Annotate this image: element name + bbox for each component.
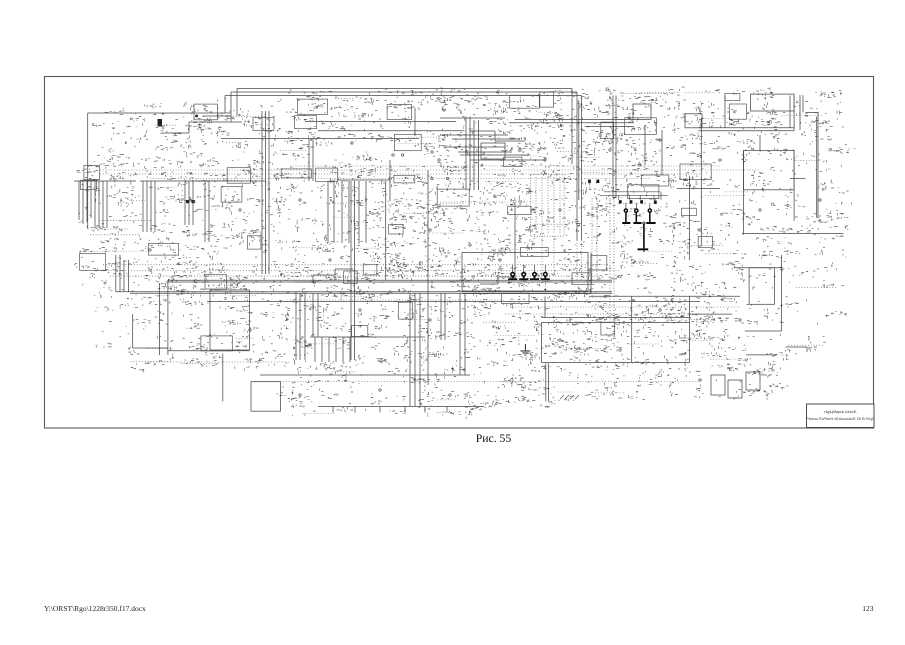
- wire: center h2: [318, 130, 465, 132]
- component block: [633, 104, 651, 119]
- dotted vertical riser: [613, 198, 615, 322]
- dotted link 11: [99, 220, 151, 222]
- wire: v645: [644, 125, 646, 165]
- wire: v351 pair: [351, 181, 355, 360]
- wire: bus step h2: [189, 121, 242, 123]
- dotted link 2: [100, 169, 760, 171]
- svg-text:РЬесы ЕсРеЬН сЕсЬсьсЬсЕ 20 В %: РЬесы ЕсРеЬН сЕсЬсьсЬсЕ 20 В %ЦО: [806, 417, 874, 421]
- contact squares: [588, 180, 657, 204]
- wire: bus step h1: [203, 115, 231, 117]
- wire: center h3: [221, 138, 419, 140]
- wire: v222: [222, 354, 224, 402]
- small components and labels (illegible at scan resolution): [74, 87, 849, 414]
- wire: left v cluster: [116, 255, 129, 292]
- wire: right v cluster: [800, 95, 803, 130]
- ground: [521, 344, 531, 355]
- dashed enclosure with bus wires: [530, 174, 564, 236]
- terminal box: [711, 375, 725, 395]
- wire: bus drop v1: [571, 89, 573, 165]
- dotted link 15: [88, 228, 130, 230]
- transformer/electrode symbols (bold): [624, 203, 651, 222]
- component block: [210, 290, 250, 350]
- wire: corner to v818: [805, 112, 818, 218]
- wire: v781: [781, 255, 783, 331]
- wire: right top v pair: [790, 96, 794, 131]
- wire: top bus 2: [231, 91, 577, 93]
- wire: bus left v1: [236, 89, 238, 117]
- wire: h690: [690, 313, 732, 315]
- wire: comb drops a: [79, 181, 107, 228]
- wire: v313 group: [313, 293, 318, 337]
- dotted link 9: [505, 313, 700, 315]
- wire: h744: [745, 330, 782, 332]
- dotted line through contacts: [498, 273, 558, 275]
- dotted link 12: [290, 299, 505, 301]
- wire: corner right: [786, 347, 807, 352]
- wire: v441 pair: [441, 293, 445, 340]
- dotted vertical risers under contacts: [577, 198, 610, 322]
- wire: v410 group: [410, 293, 420, 406]
- title stamp box: [807, 404, 875, 428]
- switch group enclosure: [462, 253, 591, 294]
- component block: [481, 143, 505, 159]
- component block (open bottom): [744, 150, 795, 189]
- wire: top-left frame horizontal: [88, 112, 231, 114]
- wire: h300: [260, 374, 470, 376]
- dotted link 7: [110, 275, 600, 277]
- wire: v296 group: [296, 293, 305, 360]
- wire: v794: [793, 150, 795, 220]
- component block: [251, 382, 281, 412]
- dotted link 14: [255, 381, 700, 383]
- junction node: [195, 115, 198, 118]
- wire: right top h pair: [698, 128, 794, 131]
- wire: v390: [389, 160, 391, 201]
- wire: bottom ticks: [333, 406, 447, 412]
- wire: relay risers: [545, 297, 689, 323]
- wire: v415: [414, 108, 416, 136]
- dotted link 3: [100, 173, 700, 175]
- wire: h302 long: [207, 301, 700, 303]
- wire: v460 pair: [460, 293, 465, 375]
- dotted column extensions: [440, 202, 554, 276]
- wire: top bus 1: [237, 88, 572, 90]
- wire: h746: [746, 354, 777, 356]
- wire: comb drops d: [205, 181, 209, 242]
- wire: mid bus 2: [116, 292, 612, 294]
- wire: center h1: [305, 121, 456, 123]
- dotted link 5: [103, 264, 610, 266]
- wire: bus step h3: [162, 132, 189, 134]
- wire: bus step v: [188, 122, 190, 133]
- component: small IC block: [158, 119, 163, 127]
- wire: step a: [295, 269, 353, 282]
- wire: h790: [790, 178, 805, 180]
- wire: v545 pair: [546, 363, 549, 401]
- wire: v689: [688, 176, 690, 260]
- bold switch contacts row: [508, 265, 550, 280]
- wire: top bus 3: [225, 95, 582, 97]
- wire: bus left v3: [224, 96, 226, 114]
- wire: bus drop v2: [577, 92, 579, 240]
- wire ladder above electrodes: [600, 192, 668, 200]
- wire: bus drop v3: [581, 96, 583, 241]
- dotted link 1: [290, 165, 720, 167]
- wire: step b: [480, 277, 516, 284]
- wire: v515: [514, 203, 516, 280]
- wire: comb drops c: [185, 181, 193, 225]
- wire: mid stack: [440, 135, 520, 152]
- wire: comb drops b: [143, 181, 155, 232]
- wire: v168: [167, 280, 169, 355]
- component block: [749, 268, 774, 305]
- wire: v760: [759, 135, 761, 150]
- terminal box: [746, 372, 760, 390]
- junction circle on electrode bar: [643, 222, 645, 224]
- terminal box: [728, 380, 742, 398]
- wire: L-shape: [133, 314, 168, 348]
- svg-text:123: 123: [862, 604, 874, 613]
- small component boxes: [80, 92, 747, 351]
- wire: mid bus right: [589, 295, 740, 297]
- wire: bus left v2: [230, 92, 232, 122]
- svg-text:Y:\ORST\Rgo\1228r350.f17.docx: Y:\ORST\Rgo\1228r350.f17.docx: [44, 604, 146, 613]
- wire: comb drops e: [328, 181, 366, 243]
- wire: v662: [661, 130, 663, 175]
- relay block divider: [631, 323, 633, 363]
- wire: h338: [338, 179, 390, 181]
- wire: mid elbows: [460, 131, 545, 160]
- wire: right h733: [734, 267, 783, 269]
- wire: v466 bundle: [466, 117, 479, 190]
- wire: bottom long h: [318, 405, 484, 407]
- component block: [685, 114, 702, 128]
- wire: center v drops: [309, 139, 313, 182]
- wire: v701: [700, 118, 702, 246]
- wire: h676: [677, 187, 720, 189]
- small contact circles: [149, 139, 821, 396]
- wire: comb bus left: [74, 180, 265, 182]
- component block: [751, 94, 795, 111]
- wire: v428 long: [427, 170, 429, 385]
- wire: v816: [816, 117, 818, 218]
- wire: left frame vertical: [87, 113, 89, 229]
- hatch marks: [560, 395, 579, 399]
- wire: v386: [385, 181, 387, 280]
- wire: vertical bundle x262: [262, 111, 269, 274]
- dotted link 8: [510, 306, 740, 308]
- wire: v613 pair: [613, 96, 616, 199]
- page border frame: [45, 77, 874, 429]
- dotted link 6: [103, 270, 620, 272]
- component: dual contact blob: [186, 200, 189, 203]
- svg-text:«ЦрЦМарсЬ ЬеЬсЕ,: «ЦрЦМарсЬ ЬеЬсЕ,: [824, 410, 857, 414]
- wire: mid bus pair: [168, 280, 612, 282]
- wire: v159: [158, 283, 160, 355]
- wire: h pair mid: [440, 118, 634, 126]
- relay block: [542, 323, 690, 363]
- wire: comb mid-bottom: [310, 337, 425, 362]
- dotted link 13: [90, 234, 140, 236]
- wire: relay top rail: [542, 317, 690, 319]
- dotted link 4: [150, 178, 650, 180]
- wire: h742 long: [742, 232, 843, 234]
- dotted droppers below contacts: [524, 281, 546, 289]
- dotted link 10: [145, 361, 289, 363]
- svg-text:Рис. 55: Рис. 55: [476, 432, 512, 445]
- wire: v743: [743, 150, 745, 234]
- wire: h168 bottom: [168, 350, 250, 352]
- wire: v725: [724, 95, 726, 128]
